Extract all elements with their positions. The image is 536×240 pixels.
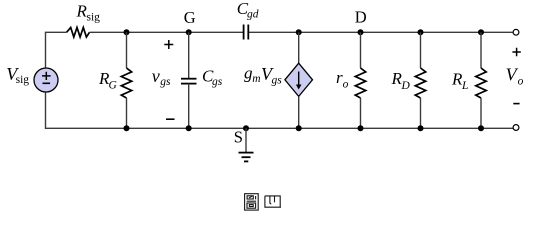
source minus sign: [43, 82, 51, 84]
node dot top R_L: [478, 29, 484, 35]
node dot bottom dependent source: [296, 125, 302, 131]
ground: [239, 128, 254, 161]
node dot bottom r_o: [358, 125, 364, 131]
caption 圖 glyph: [245, 194, 259, 210]
resistor r_o: [355, 32, 365, 128]
node dot top junction R_sig/R_G: [124, 29, 130, 35]
svg-text:L: L: [461, 80, 468, 92]
source plus sign: [42, 72, 51, 80]
resistor R_D: [415, 32, 425, 128]
svg-text:gs: gs: [160, 76, 171, 88]
output terminal top: [513, 29, 519, 35]
svg-text:o: o: [343, 78, 349, 90]
node dot bottom R_L: [478, 125, 484, 131]
output terminal bottom: [513, 125, 519, 131]
label + output: [512, 48, 520, 56]
wire bottom rail: [46, 92, 514, 128]
svg-text:v: v: [152, 66, 160, 86]
node dot top dependent source: [296, 29, 302, 35]
node D dot: [358, 29, 364, 35]
svg-text:o: o: [518, 75, 524, 87]
dependent current source g_m V_gs: [285, 32, 313, 128]
node dot bottom R_D: [418, 125, 424, 131]
svg-text:D: D: [355, 8, 367, 27]
svg-text:S: S: [234, 127, 243, 146]
svg-text:gd: gd: [247, 9, 259, 21]
label + of v_gs: [164, 40, 173, 49]
node dot top R_D: [418, 29, 424, 35]
svg-text:G: G: [184, 8, 196, 27]
resistor R_G: [121, 32, 131, 128]
node G dot: [186, 29, 192, 35]
svg-text:G: G: [109, 79, 118, 91]
capacitor C_gd plates: [244, 25, 249, 40]
resistor R_L: [476, 32, 486, 128]
svg-text:m: m: [252, 73, 260, 85]
capacitor C_gs: [181, 32, 197, 128]
resistor R_sig zigzag: [67, 28, 90, 38]
svg-text:sig: sig: [16, 74, 30, 86]
svg-text:gs: gs: [272, 75, 283, 87]
node S dot: [243, 125, 249, 131]
caption 四 glyph: [265, 196, 281, 207]
node dot bottom R_G: [124, 125, 130, 131]
wire top rail R_sig to terminal: [90, 31, 244, 33]
svg-text:sig: sig: [87, 11, 101, 23]
node dot bottom C_gs: [186, 125, 192, 131]
label minus output: [513, 103, 519, 105]
svg-text:gs: gs: [212, 76, 223, 88]
label minus of v_gs: [166, 118, 175, 120]
source V_sig circle: [34, 68, 58, 92]
svg-text:D: D: [401, 80, 411, 92]
wire top rail left segment: [46, 32, 67, 68]
